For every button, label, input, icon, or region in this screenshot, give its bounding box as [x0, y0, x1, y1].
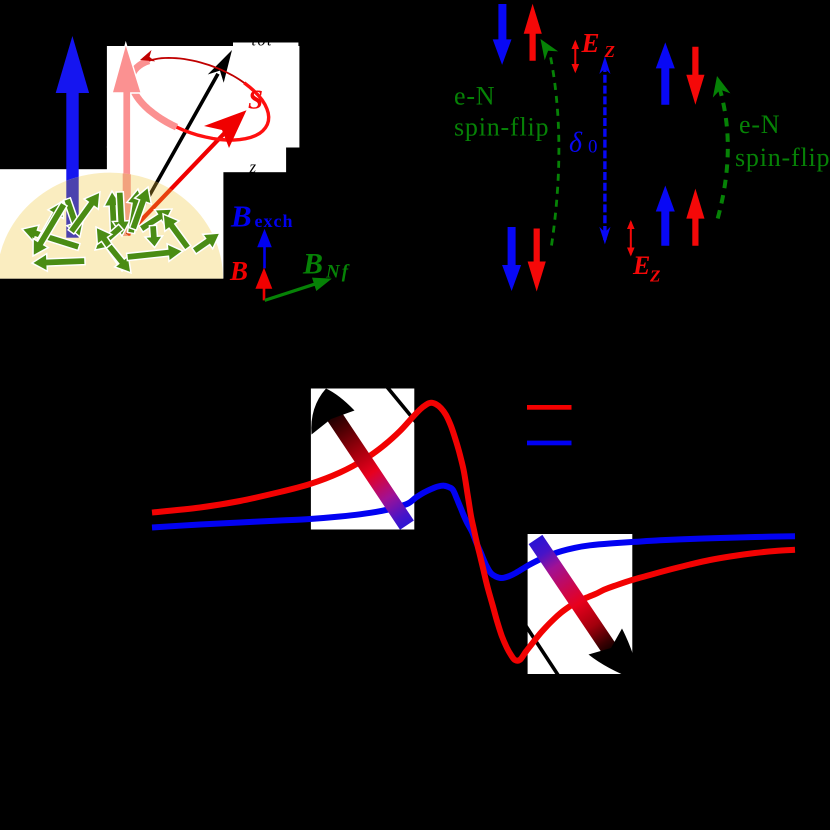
legend red line — [527, 405, 572, 410]
pair1 blue thick down arrow — [493, 4, 512, 65]
svg-text:E: E — [632, 251, 650, 280]
pair1 red thin up arrow — [524, 4, 542, 61]
blue arrow B_exch — [257, 229, 272, 269]
svg-text:δ: δ — [569, 128, 583, 159]
precession ellipse back (pink thick) arc — [131, 61, 176, 127]
pair3 red thin down arrow — [528, 229, 546, 292]
white box A2 extension below — [107, 147, 286, 173]
nuclear spin arrow n13 — [32, 252, 86, 272]
nuclear spin arrow n8 — [125, 184, 157, 232]
svg-text:B: B — [230, 198, 252, 233]
white box 1 (upper gradient-bar box) — [311, 389, 414, 530]
svg-text:E: E — [581, 28, 600, 58]
nuclear spin arrow n9 — [136, 202, 177, 237]
pair4 red thin up arrow — [686, 189, 704, 246]
svg-text:0: 0 — [588, 137, 598, 158]
black arrow B_tot shaft — [128, 74, 219, 235]
green arrow B_Nf — [263, 272, 334, 307]
nuclear spin arrow n17 — [189, 226, 225, 258]
tinted arrow segments inside hemisphere — [66, 160, 176, 238]
legend blue line — [527, 441, 572, 446]
white box A behind precession cone — [107, 46, 300, 148]
nuclear spin arrow n16 — [144, 225, 163, 248]
white box behind B_tot label — [233, 43, 298, 48]
svg-text:e-N: e-N — [454, 82, 495, 111]
E_Z small red double arrow (bottom) — [630, 222, 632, 255]
red arrow B — [255, 268, 272, 301]
pair4 blue thick up arrow — [656, 186, 675, 246]
nuclear spin arrow n15 — [156, 209, 195, 253]
E_Z small red double arrow (top) — [574, 42, 576, 71]
dark red arrowhead on ellipse — [140, 50, 155, 61]
precession ellipse front bright red arc — [177, 83, 269, 140]
green arrowhead right curve — [713, 76, 731, 98]
nuclear spin arrow n14 — [126, 242, 184, 265]
precession ellipse top thin dark arc — [149, 58, 246, 84]
nuclear spin arrow n11 — [89, 222, 132, 274]
pair3 blue thick down arrow — [502, 227, 521, 291]
green dashed spin-flip curve right — [718, 88, 728, 219]
svg-text:B: B — [302, 248, 323, 281]
svg-text:S: S — [248, 85, 263, 115]
big blue arrow (B external field) — [56, 36, 89, 238]
nuclear spin arrow n4 — [64, 187, 107, 237]
svg-text:tot: tot — [252, 33, 273, 50]
white box B behind hemisphere — [0, 169, 223, 278]
green arrowhead left curve — [541, 39, 559, 60]
thin black line in box 1 — [378, 376, 420, 427]
nuclear spin arrow n12 — [102, 240, 138, 278]
nuclear spin arrow n6 — [111, 192, 131, 237]
green dashed spin-flip curve left — [550, 54, 559, 246]
svg-text:B: B — [229, 256, 248, 286]
nuclear spin arrow n10 — [89, 220, 127, 256]
gradient bar 1 — [323, 406, 413, 530]
black arrow B_tot head — [208, 50, 232, 83]
blue dashed double arrow delta_0 — [603, 64, 606, 240]
red Hanle curve — [152, 403, 795, 661]
black arrowhead bar 2 — [589, 629, 642, 683]
hemisphere of nuclear spins — [0, 173, 223, 279]
pair2 red thin down arrow — [686, 47, 704, 105]
nuclear spin arrow n1 — [19, 221, 81, 256]
nuclear spin arrow n7 — [122, 188, 146, 235]
white box 2 (lower gradient-bar box) — [528, 534, 633, 674]
svg-text:exch: exch — [255, 211, 294, 231]
nuclear spin arrow n18 — [25, 199, 71, 260]
svg-text:spin-flip: spin-flip — [454, 112, 549, 141]
green nuclear spin arrows — [19, 184, 225, 278]
thin black line in box 2 — [517, 612, 568, 690]
pair2 blue thick up arrow — [656, 42, 675, 104]
nuclear spin arrow n5 — [103, 191, 123, 233]
black arrowhead bar 1 — [311, 389, 354, 435]
nuclear spin arrow n2 — [31, 197, 70, 249]
pink arrow (time averaged spin) — [112, 43, 141, 236]
nuclear spin arrow n3 — [59, 196, 89, 240]
blue Hanle curve — [152, 486, 795, 578]
gradient bar 2 — [529, 535, 617, 655]
svg-text:z: z — [249, 158, 257, 177]
svg-text:Z: Z — [649, 267, 660, 286]
svg-text:e-N: e-N — [739, 110, 780, 139]
svg-text:spin-flip: spin-flip — [735, 143, 830, 172]
red arrow S shaft — [128, 132, 227, 235]
red arrow S head — [204, 110, 247, 148]
